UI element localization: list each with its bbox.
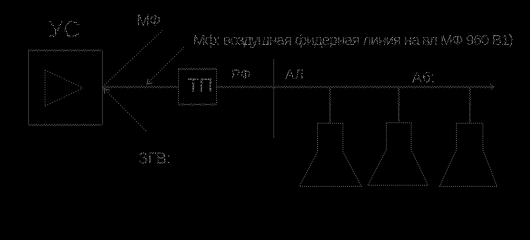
svg-text:Аб:: Аб: (412, 70, 435, 87)
svg-text:ТП: ТП (188, 76, 213, 97)
svg-text:РФ: РФ (231, 66, 251, 82)
svg-text:УС: УС (48, 17, 81, 44)
svg-text:Мф: воздушная фидерная линия н: Мф: воздушная фидерная линия на вл МФ 96… (193, 32, 514, 49)
svg-text:АЛ: АЛ (285, 66, 304, 82)
svg-text:МФ: МФ (137, 13, 162, 30)
svg-text:ЗГВ:: ЗГВ: (139, 151, 171, 168)
